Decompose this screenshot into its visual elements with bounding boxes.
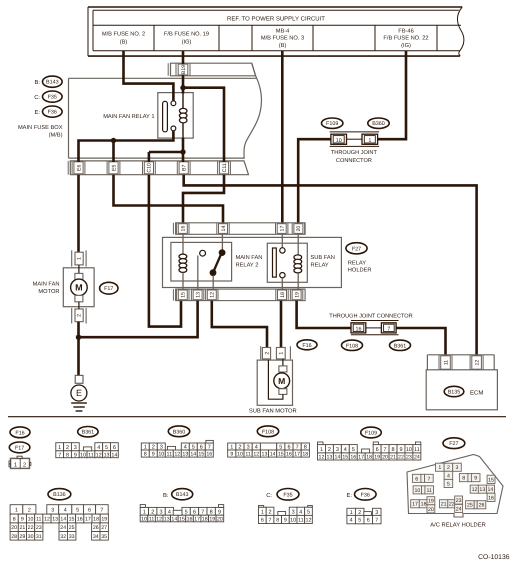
svg-text:B135: B135: [448, 390, 461, 396]
svg-text:30: 30: [28, 534, 34, 540]
svg-text:F17: F17: [15, 445, 24, 451]
svg-text:13: 13: [164, 517, 170, 523]
svg-text:6: 6: [261, 517, 264, 523]
svg-text:10: 10: [141, 517, 147, 523]
svg-text:8: 8: [462, 476, 465, 482]
svg-text:2: 2: [151, 509, 154, 515]
svg-text:8: 8: [210, 509, 213, 515]
svg-text:1: 1: [368, 138, 371, 144]
svg-text:11: 11: [414, 447, 420, 453]
svg-text:12: 12: [156, 517, 162, 523]
svg-text:E:: E:: [347, 493, 353, 499]
svg-text:10: 10: [80, 452, 86, 458]
svg-text:20: 20: [11, 525, 17, 531]
svg-text:E:: E:: [35, 110, 41, 116]
svg-text:10: 10: [158, 452, 164, 458]
svg-text:3: 3: [456, 465, 459, 471]
svg-text:16: 16: [181, 226, 187, 232]
svg-text:C11: C11: [222, 163, 228, 172]
svg-text:(IG): (IG): [401, 42, 411, 49]
svg-text:B360: B360: [173, 429, 186, 435]
svg-text:F/B FUSE NO. 19: F/B FUSE NO. 19: [164, 31, 209, 38]
svg-text:22: 22: [449, 502, 455, 508]
svg-text:1: 1: [438, 465, 441, 471]
svg-text:14: 14: [334, 454, 340, 460]
svg-text:12: 12: [306, 517, 312, 523]
svg-text:19: 19: [209, 517, 215, 523]
svg-text:12: 12: [44, 517, 50, 523]
svg-text:F16: F16: [15, 430, 24, 436]
svg-text:F27: F27: [352, 246, 361, 252]
svg-text:4: 4: [64, 507, 67, 513]
svg-text:B:: B:: [163, 493, 169, 499]
svg-text:7: 7: [375, 518, 378, 524]
svg-text:RELAY: RELAY: [348, 261, 366, 267]
svg-text:11: 11: [298, 517, 304, 523]
svg-text:(IG): (IG): [182, 39, 192, 46]
svg-text:10: 10: [237, 452, 243, 458]
svg-text:2: 2: [66, 445, 69, 451]
svg-text:15: 15: [278, 452, 284, 458]
svg-text:1: 1: [77, 257, 83, 260]
svg-text:21: 21: [441, 502, 447, 508]
svg-text:6: 6: [193, 509, 196, 515]
svg-text:F17: F17: [104, 286, 113, 292]
svg-text:24: 24: [60, 525, 66, 531]
svg-text:16: 16: [77, 517, 83, 523]
svg-text:18: 18: [421, 502, 427, 508]
svg-text:13: 13: [195, 292, 201, 298]
svg-text:5: 5: [358, 518, 361, 524]
svg-text:6: 6: [415, 476, 418, 482]
svg-text:18: 18: [302, 452, 308, 458]
svg-text:16: 16: [350, 454, 356, 460]
svg-text:B143: B143: [46, 80, 59, 86]
svg-text:20: 20: [296, 226, 302, 232]
svg-text:26: 26: [93, 525, 99, 531]
svg-text:10: 10: [28, 517, 34, 523]
svg-text:RELAY: RELAY: [311, 262, 329, 268]
svg-text:13: 13: [182, 452, 188, 458]
svg-text:ECM: ECM: [470, 389, 483, 396]
svg-text:C10: C10: [147, 163, 153, 173]
svg-text:MB-4: MB-4: [276, 28, 290, 34]
svg-text:11: 11: [88, 452, 94, 458]
svg-text:19: 19: [428, 499, 434, 505]
svg-text:9: 9: [21, 517, 24, 523]
svg-text:F35: F35: [48, 95, 57, 101]
svg-text:10: 10: [336, 138, 342, 144]
svg-text:1: 1: [261, 509, 264, 515]
svg-text:10: 10: [290, 517, 296, 523]
svg-text:9: 9: [284, 517, 287, 523]
svg-text:1: 1: [58, 445, 61, 451]
svg-text:14: 14: [221, 226, 227, 232]
svg-text:4: 4: [97, 445, 100, 451]
svg-text:12: 12: [472, 487, 478, 493]
svg-text:14: 14: [171, 517, 177, 523]
svg-text:20: 20: [428, 507, 434, 513]
svg-text:M: M: [75, 283, 83, 293]
svg-text:RELAY 2: RELAY 2: [236, 262, 259, 268]
svg-text:2: 2: [77, 314, 83, 317]
svg-text:6: 6: [88, 507, 91, 513]
svg-text:12: 12: [96, 452, 102, 458]
svg-text:13: 13: [262, 452, 268, 458]
svg-text:F27: F27: [449, 441, 458, 447]
svg-text:12: 12: [319, 454, 325, 460]
svg-text:F35: F35: [283, 492, 292, 498]
svg-text:8: 8: [391, 447, 394, 453]
svg-text:18: 18: [202, 517, 208, 523]
svg-text:E6: E6: [76, 165, 82, 171]
svg-text:E5: E5: [111, 165, 117, 171]
svg-text:11: 11: [36, 517, 42, 523]
svg-text:17: 17: [358, 454, 364, 460]
svg-text:1: 1: [14, 462, 17, 468]
svg-text:13: 13: [104, 452, 110, 458]
svg-text:5: 5: [185, 509, 188, 515]
svg-text:18: 18: [280, 292, 286, 298]
svg-text:7: 7: [201, 509, 204, 515]
svg-text:19: 19: [101, 517, 107, 523]
svg-text:23: 23: [456, 498, 462, 504]
svg-text:C:: C:: [266, 492, 272, 499]
svg-text:MAIN FUSE BOX: MAIN FUSE BOX: [18, 125, 63, 131]
svg-text:24: 24: [414, 454, 420, 460]
svg-text:FB-46: FB-46: [398, 28, 414, 34]
svg-text:3: 3: [51, 507, 54, 513]
svg-text:16: 16: [206, 452, 212, 458]
svg-text:HOLDER: HOLDER: [348, 268, 372, 274]
svg-text:9: 9: [152, 452, 155, 458]
svg-text:11: 11: [167, 452, 173, 458]
svg-text:B:: B:: [35, 80, 41, 86]
svg-text:12: 12: [174, 452, 180, 458]
svg-text:8: 8: [144, 452, 147, 458]
svg-text:3: 3: [375, 510, 378, 516]
svg-text:11: 11: [245, 452, 251, 458]
svg-text:15: 15: [69, 517, 75, 523]
svg-text:7: 7: [269, 517, 272, 523]
svg-text:35: 35: [101, 534, 107, 540]
svg-text:B143: B143: [176, 492, 189, 498]
svg-text:THROUGH JOINT CONNECTOR: THROUGH JOINT CONNECTOR: [329, 313, 412, 319]
svg-text:3: 3: [74, 445, 77, 451]
svg-text:2: 2: [23, 461, 26, 468]
svg-text:3: 3: [160, 509, 163, 515]
svg-text:33: 33: [69, 534, 75, 540]
svg-text:F108: F108: [346, 343, 358, 349]
svg-text:F109: F109: [365, 431, 377, 437]
svg-text:12: 12: [253, 452, 259, 458]
svg-text:M: M: [278, 376, 285, 386]
svg-text:12: 12: [210, 292, 216, 298]
svg-text:F108: F108: [262, 429, 274, 435]
svg-text:20: 20: [382, 454, 388, 460]
svg-text:28: 28: [11, 534, 17, 540]
svg-text:6: 6: [367, 518, 370, 524]
svg-text:14: 14: [190, 452, 196, 458]
svg-text:3: 3: [336, 447, 339, 453]
svg-text:(B): (B): [279, 42, 287, 49]
svg-text:9: 9: [399, 447, 402, 453]
svg-text:B360: B360: [372, 121, 385, 127]
svg-text:(B): (B): [120, 39, 128, 46]
svg-text:11: 11: [149, 517, 155, 523]
svg-text:SUB FAN MOTOR: SUB FAN MOTOR: [249, 408, 297, 415]
svg-text:4: 4: [350, 518, 353, 524]
svg-text:31: 31: [36, 534, 42, 540]
svg-text:8: 8: [13, 517, 16, 523]
svg-text:7: 7: [384, 447, 387, 453]
svg-text:24: 24: [456, 506, 462, 512]
svg-text:4: 4: [447, 473, 450, 479]
svg-text:16: 16: [488, 495, 494, 501]
svg-text:11: 11: [426, 488, 432, 494]
svg-text:34: 34: [93, 534, 99, 540]
svg-text:2: 2: [328, 447, 331, 453]
svg-text:13: 13: [479, 487, 485, 493]
svg-text:7: 7: [387, 326, 390, 332]
svg-text:MOTOR: MOTOR: [38, 289, 59, 295]
svg-text:B361: B361: [82, 430, 95, 436]
svg-text:2: 2: [269, 509, 272, 515]
svg-text:MAIN FAN: MAIN FAN: [33, 281, 60, 287]
svg-text:F16: F16: [302, 343, 311, 349]
svg-text:9: 9: [74, 452, 77, 458]
svg-text:6: 6: [113, 445, 116, 451]
svg-text:13: 13: [52, 517, 58, 523]
svg-text:22: 22: [398, 454, 404, 460]
svg-text:7: 7: [427, 476, 430, 482]
svg-text:21: 21: [390, 454, 396, 460]
svg-text:B361: B361: [394, 343, 407, 349]
svg-text:C:: C:: [34, 94, 40, 101]
svg-text:19: 19: [374, 454, 380, 460]
svg-text:17: 17: [280, 226, 286, 232]
svg-text:F36: F36: [361, 492, 370, 498]
svg-text:15: 15: [488, 477, 494, 483]
svg-text:7: 7: [58, 452, 61, 458]
svg-text:13: 13: [327, 454, 333, 460]
svg-text:14: 14: [488, 487, 494, 493]
svg-text:18: 18: [93, 517, 99, 523]
svg-text:29: 29: [19, 534, 25, 540]
svg-text:THROUGH JOINT: THROUGH JOINT: [331, 150, 378, 156]
svg-text:23: 23: [406, 454, 412, 460]
svg-text:M/B FUSE NO. 2: M/B FUSE NO. 2: [102, 31, 145, 38]
svg-text:E: E: [76, 388, 82, 398]
svg-text:B19: B19: [181, 65, 187, 74]
svg-text:SUB FAN: SUB FAN: [311, 255, 335, 261]
svg-text:11: 11: [443, 360, 449, 365]
svg-text:7: 7: [100, 507, 103, 513]
svg-text:17: 17: [294, 452, 300, 458]
svg-text:15: 15: [198, 452, 204, 458]
svg-text:A/C RELAY HOLDER: A/C RELAY HOLDER: [430, 522, 486, 529]
svg-text:M/B FUSE NO. 3: M/B FUSE NO. 3: [261, 35, 304, 42]
svg-text:1: 1: [143, 509, 146, 515]
svg-text:19: 19: [294, 292, 300, 298]
svg-text:25: 25: [69, 525, 75, 531]
svg-text:B7: B7: [182, 165, 188, 171]
svg-text:9: 9: [230, 452, 233, 458]
svg-text:4: 4: [168, 509, 171, 515]
svg-text:5: 5: [447, 481, 450, 487]
svg-text:16: 16: [187, 517, 193, 523]
svg-text:10: 10: [414, 488, 420, 494]
svg-text:REF. TO POWER SUPPLY CIRCUIT: REF. TO POWER SUPPLY CIRCUIT: [227, 15, 325, 22]
svg-text:CO-10136: CO-10136: [478, 554, 510, 561]
svg-text:4: 4: [299, 509, 302, 515]
svg-text:MAIN FAN: MAIN FAN: [236, 255, 263, 261]
svg-text:1: 1: [350, 510, 353, 516]
svg-text:15: 15: [181, 292, 187, 298]
svg-text:2: 2: [264, 352, 270, 355]
svg-text:MAIN FAN RELAY 1: MAIN FAN RELAY 1: [103, 114, 154, 120]
svg-text:2: 2: [28, 507, 31, 513]
svg-text:B136: B136: [53, 492, 66, 498]
svg-text:1: 1: [279, 352, 285, 355]
svg-text:5: 5: [105, 445, 108, 451]
svg-text:16: 16: [286, 452, 292, 458]
svg-text:2: 2: [447, 465, 450, 471]
svg-text:17: 17: [412, 502, 418, 508]
svg-text:16: 16: [356, 326, 362, 332]
svg-text:F/B FUSE NO. 22: F/B FUSE NO. 22: [383, 35, 428, 42]
svg-text:26: 26: [479, 503, 485, 509]
svg-text:14: 14: [60, 517, 66, 523]
svg-text:2: 2: [358, 510, 361, 516]
svg-text:17: 17: [194, 517, 200, 523]
svg-text:12: 12: [474, 360, 480, 366]
svg-text:F36: F36: [48, 110, 57, 116]
svg-text:9: 9: [218, 509, 221, 515]
svg-text:27: 27: [101, 525, 107, 531]
svg-text:8: 8: [276, 517, 279, 523]
svg-text:F109: F109: [326, 121, 338, 127]
svg-text:25: 25: [467, 503, 473, 509]
svg-text:1: 1: [15, 507, 18, 513]
svg-text:CONNECTOR: CONNECTOR: [336, 158, 372, 164]
svg-text:5: 5: [352, 447, 355, 453]
svg-text:14: 14: [270, 452, 276, 458]
svg-text:(M/B): (M/B): [49, 132, 63, 139]
svg-text:32: 32: [60, 534, 66, 540]
svg-text:14: 14: [111, 452, 117, 458]
svg-text:6: 6: [376, 447, 379, 453]
svg-text:17: 17: [85, 517, 91, 523]
svg-text:9: 9: [474, 476, 477, 482]
svg-text:18: 18: [366, 454, 372, 460]
svg-text:8: 8: [66, 452, 69, 458]
svg-text:22: 22: [28, 525, 34, 531]
svg-text:20: 20: [217, 517, 223, 523]
svg-text:4: 4: [344, 447, 347, 453]
svg-text:21: 21: [19, 525, 25, 531]
svg-text:5: 5: [76, 507, 79, 513]
svg-text:1: 1: [320, 447, 323, 453]
svg-text:15: 15: [179, 517, 185, 523]
svg-text:3: 3: [292, 509, 295, 515]
svg-text:15: 15: [342, 454, 348, 460]
svg-text:5: 5: [307, 509, 310, 515]
svg-text:23: 23: [36, 525, 42, 531]
svg-text:10: 10: [406, 447, 412, 453]
